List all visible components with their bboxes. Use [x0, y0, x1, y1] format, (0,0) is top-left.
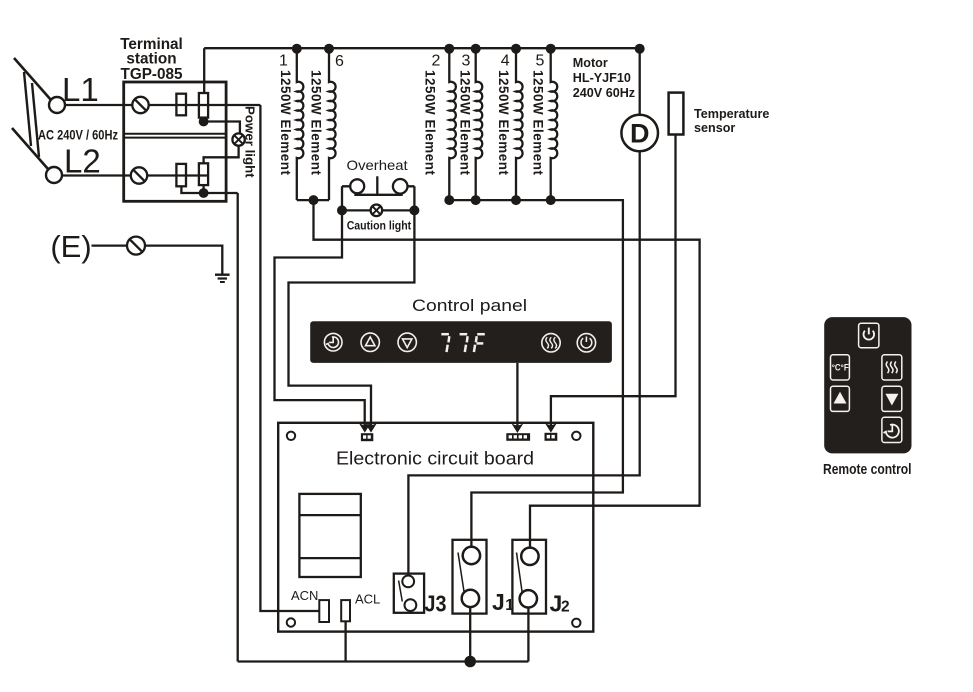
relay J2 bottom contact [520, 590, 537, 607]
relay J2 body [512, 540, 546, 614]
wire caution light row [342, 209, 414, 211]
remote heater button [882, 355, 902, 380]
svg-text:Power light: Power light [242, 106, 257, 178]
node element 4 bottom [511, 195, 521, 205]
heater element 4 (1250W) [516, 48, 523, 200]
svg-text:1250W Element: 1250W Element [457, 70, 472, 176]
svg-text:1: 1 [279, 52, 288, 69]
svg-text:240V 60Hz: 240V 60Hz [573, 86, 635, 100]
incoming mains cable sheath diagonals [14, 58, 51, 100]
wire control panel to board connector [516, 363, 518, 427]
wire joining elements 2-5 bottoms to relay J1 [449, 200, 623, 547]
wire power light bottom to fuse F2b top [204, 146, 239, 164]
fuse block F2a [176, 164, 186, 186]
screw terminal (L1 row) [132, 97, 148, 113]
relay J3 lever [399, 581, 403, 602]
board corner hole top-right [572, 432, 580, 440]
svg-text:Overheat: Overheat [347, 158, 408, 173]
arrow into CN3 [545, 423, 557, 433]
wire bottom bus [238, 660, 529, 662]
heater element 1 (1250W) [297, 48, 304, 200]
svg-text:Caution light: Caution light [347, 218, 412, 232]
remote up button [831, 386, 850, 411]
remote C/F button [831, 355, 850, 380]
svg-text:5: 5 [536, 52, 545, 69]
wire overheat left to board connector pin [275, 210, 365, 426]
board corner hole bottom-right [572, 619, 580, 627]
wire L2 row through fuses [147, 174, 208, 176]
overheat switch left terminal circle [350, 179, 364, 193]
heater element 3 (1250W) [476, 48, 483, 200]
overheat switch actuator tick [376, 176, 378, 195]
wire fuse F2a bottom jog to junction [181, 186, 237, 193]
svg-text:Temperature: Temperature [694, 107, 769, 121]
wire temperature sensor to board connector [551, 135, 676, 428]
svg-text:ACL: ACL [355, 591, 380, 606]
node bus tap element 1 [292, 44, 302, 54]
motor D circle [621, 115, 658, 152]
screw terminal (L2 row) [131, 167, 147, 183]
svg-text:AC 240V / 60Hz: AC 240V / 60Hz [38, 128, 118, 144]
transformer T1 [299, 494, 360, 577]
node caution left junction [337, 205, 347, 215]
node bus tap element 4 [511, 44, 521, 54]
node bus tap element 3 [471, 44, 481, 54]
display digit 7 (ones) [460, 333, 468, 336]
svg-text:HL-YJF10: HL-YJF10 [573, 71, 631, 85]
connector CN1 (overheat input) [361, 433, 373, 441]
svg-text:3: 3 [462, 52, 471, 69]
svg-text:2: 2 [561, 598, 570, 615]
overheat switch right terminal circle [393, 179, 408, 194]
relay J2 top contact [521, 548, 538, 565]
node junction below F2b [199, 188, 209, 198]
power light lamp [232, 133, 244, 145]
terminal L2 circle [46, 167, 62, 183]
wire fuse F1b top up to element bus [203, 48, 205, 93]
wire L2 feed down left side to bottom bus [237, 193, 239, 662]
fuse block F2b [199, 163, 208, 185]
arrow into CN1 [359, 423, 371, 433]
svg-text:6: 6 [335, 53, 344, 70]
control panel clock icon [324, 333, 342, 351]
heater element 6 (1250W) [329, 48, 336, 200]
overheat switch contact bar [354, 194, 402, 196]
svg-text:D: D [630, 119, 650, 149]
wire overheat right to board connector pin [289, 210, 415, 426]
wire fuse F1b bottom to junction [202, 118, 204, 122]
svg-text:TGP-085: TGP-085 [120, 66, 183, 83]
svg-text:4: 4 [501, 52, 510, 69]
svg-text:J: J [492, 589, 505, 615]
wire junction to power light [204, 122, 240, 133]
fuse ACL [341, 600, 350, 621]
node element 3 bottom [471, 195, 481, 205]
svg-text:L2: L2 [64, 143, 101, 180]
wire relay J2 bottom to bus [527, 608, 529, 662]
svg-text:°C°F: °C°F [832, 362, 849, 373]
wire L1 row through fuses, exits box to x=260.4 [149, 104, 261, 106]
heater element 2 (1250W) [449, 48, 456, 200]
control panel power icon [577, 334, 595, 352]
wire L1 input to terminal station [65, 104, 132, 106]
fuse block F1a [176, 94, 186, 116]
svg-text:Motor: Motor [573, 56, 608, 70]
cable conductor lines [24, 72, 31, 146]
node bus / J1 junction [464, 656, 476, 668]
motor D wire from bus [639, 48, 641, 115]
wire (E) row [92, 246, 223, 274]
terminal station partition lines [124, 133, 226, 135]
svg-text:1250W Element: 1250W Element [309, 70, 324, 176]
remote control body [824, 317, 911, 453]
relay J1 bottom contact [462, 590, 479, 607]
svg-text:ACN: ACN [291, 588, 318, 603]
node caution right junction [409, 205, 419, 215]
wire L2 input to terminal station [62, 174, 131, 176]
wire motor to relay J3 [408, 151, 639, 575]
overheat switch right lead [407, 186, 414, 210]
heater element 5 (1250W) [551, 48, 558, 200]
relay J1 body [453, 540, 487, 614]
overheat switch left lead [342, 186, 350, 210]
fuse block F1b [199, 93, 208, 118]
board corner hole bottom-left [287, 618, 295, 626]
relay J3 bottom contact [405, 599, 417, 611]
board corner hole top-left [287, 432, 295, 440]
control panel up button icon [361, 333, 379, 351]
svg-text:(E): (E) [50, 229, 91, 264]
wire top element bus [204, 47, 640, 49]
arrow into CN2 [511, 423, 523, 433]
remote power button [859, 323, 879, 348]
wire relay J1 bottom to bus [469, 607, 471, 661]
display digit 7 (tens) [441, 334, 485, 352]
relay J1 top contact [463, 547, 480, 564]
fuse ACN [319, 600, 329, 622]
node bus corner to motor [635, 44, 645, 54]
connector CN3 (temperature sensor, 2-pin) [545, 433, 558, 441]
display letter F [477, 333, 485, 336]
wire fuse F2b bottom stem [202, 185, 204, 193]
wire ACL to bottom bus [344, 621, 346, 661]
svg-text:1250W Element: 1250W Element [496, 70, 511, 176]
svg-text:1250W Element: 1250W Element [423, 70, 438, 176]
wire joining elements 1 and 6 bottoms [297, 199, 329, 201]
svg-text:Electronic circuit board: Electronic circuit board [336, 447, 534, 468]
connector CN2 (control panel, 4-pin) [506, 433, 530, 441]
svg-text:Remote control: Remote control [823, 462, 912, 478]
remote down button [882, 386, 902, 411]
svg-text:1250W Element: 1250W Element [531, 70, 546, 176]
terminal L1 circle [49, 97, 65, 113]
node elements 1/6 junction [309, 195, 319, 205]
svg-text:1250W Element: 1250W Element [278, 70, 293, 176]
svg-text:2: 2 [432, 52, 441, 69]
temperature sensor body [669, 93, 684, 135]
ground wire from (E) screw [127, 237, 145, 255]
caution light lamp [371, 205, 383, 217]
control panel body [310, 321, 612, 363]
relay J1 lever [458, 553, 464, 594]
node element 5 bottom [546, 195, 556, 205]
ground symbol [215, 274, 230, 276]
node bus tap element 2 [444, 44, 454, 54]
electronic circuit board outline [278, 423, 593, 632]
node junction below F1b [199, 117, 209, 127]
remote timer button [882, 417, 902, 442]
terminal station box [124, 82, 226, 201]
node bus tap element 6 [324, 44, 334, 54]
svg-text:J3: J3 [425, 591, 447, 617]
node bus tap element 5 [546, 44, 556, 54]
svg-text:sensor: sensor [694, 121, 735, 135]
wire L1 feed down to ACN [260, 105, 319, 611]
control panel down button icon [398, 333, 416, 351]
svg-text:Control panel: Control panel [412, 296, 527, 315]
relay J3 body [394, 574, 424, 613]
control panel heater icon [542, 334, 560, 352]
relay J2 lever [517, 553, 523, 594]
node element 2 bottom [444, 195, 454, 205]
wire elements 1/6 junction to relay J2 [314, 200, 700, 547]
svg-text:L1: L1 [62, 71, 99, 108]
svg-text:1: 1 [505, 597, 514, 614]
relay J3 top contact [402, 576, 414, 588]
